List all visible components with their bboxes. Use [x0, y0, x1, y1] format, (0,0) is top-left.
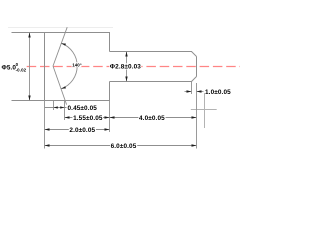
2.0 dim line — [45, 129, 110, 131]
svg-text:-0.02: -0.02 — [16, 67, 27, 72]
arrowheads — [28, 33, 201, 147]
bottom edge big cylinder — [44, 100, 110, 102]
2.0 arrow right — [105, 128, 110, 130]
svg-text:2.0±0.05: 2.0±0.05 — [69, 127, 95, 134]
0.45 dim line — [45, 107, 67, 109]
small cylinder bottom edge — [110, 81, 193, 83]
phi2.8 dim line — [126, 52, 128, 82]
phi5 arrow up — [28, 33, 30, 38]
grey blip vertical — [204, 93, 206, 128]
6.0 arrow right — [192, 144, 197, 146]
svg-text:4.0±0.05: 4.0±0.05 — [139, 115, 165, 122]
svg-text:Φ2.8±0.03: Φ2.8±0.03 — [110, 64, 141, 71]
right ext line — [196, 83, 198, 149]
4.0 label — [138, 115, 165, 122]
angle arc — [61, 43, 77, 89]
top edge big cylinder — [44, 32, 110, 34]
1.55 arrow left — [65, 116, 70, 118]
step shoulder bottom — [109, 82, 111, 101]
1.0 arrow shafts — [185, 91, 192, 93]
6.0 arrow left — [45, 144, 50, 146]
chamfer bottom — [192, 77, 197, 82]
1.0 arrow left-pointing — [197, 90, 202, 92]
phi5 arrow down — [28, 96, 30, 101]
0.45 ext cone-base — [64, 101, 66, 121]
phi2.8 arrow up — [125, 52, 127, 57]
chamfer top — [192, 52, 197, 57]
svg-text:140°: 140° — [72, 62, 82, 67]
svg-text:6.0±0.05: 6.0±0.05 — [111, 143, 137, 150]
1.0 ext left — [191, 82, 193, 95]
4.0 arrow left — [110, 116, 115, 118]
4.0 arrow right — [192, 116, 197, 118]
1.55 dim line — [65, 117, 110, 119]
angle arc arrowhead top — [61, 43, 66, 46]
grey blip horizontal — [191, 109, 217, 111]
phi5 ext top — [12, 32, 45, 34]
angle arc arrowhead bottom — [61, 86, 66, 89]
left face ext line down — [44, 101, 46, 149]
svg-text:Φ5.0: Φ5.0 — [2, 65, 17, 72]
part outline — [44, 27, 197, 104]
phi2.8 label — [109, 63, 141, 70]
phi5 ext bottom — [12, 100, 45, 102]
1.0 arrow right-pointing — [187, 90, 192, 92]
2.0 label — [69, 127, 96, 134]
phi2.8 arrow down — [125, 77, 127, 82]
step shoulder top — [109, 33, 111, 52]
angle label — [72, 62, 82, 67]
right face — [196, 57, 198, 77]
1.55 label — [72, 115, 103, 122]
svg-text:1.0±0.05: 1.0±0.05 — [205, 89, 231, 96]
0.45 arrow left — [54, 106, 58, 108]
svg-text:0.45±0.05: 0.45±0.05 — [68, 105, 98, 112]
0.45 arrow right — [60, 106, 64, 108]
svg-text:1.55±0.05: 1.55±0.05 — [73, 115, 103, 122]
dimension graphics — [12, 33, 204, 149]
cone upper line — [53, 27, 67, 66]
step ext line — [109, 101, 111, 133]
faint construction line top — [8, 27, 113, 29]
cone lower line — [53, 66, 67, 105]
2.0 arrow left — [45, 128, 50, 130]
6.0 label — [110, 143, 137, 150]
centerline — [27, 66, 240, 68]
svg-text:0: 0 — [16, 62, 19, 67]
0.45 ext apex — [53, 101, 55, 111]
small cylinder top edge — [110, 51, 193, 53]
4.0 dim line — [110, 117, 197, 119]
1.55 arrow right — [105, 116, 110, 118]
left face — [44, 32, 46, 101]
phi5 dim line — [29, 33, 31, 101]
6.0 dim line — [45, 145, 197, 147]
